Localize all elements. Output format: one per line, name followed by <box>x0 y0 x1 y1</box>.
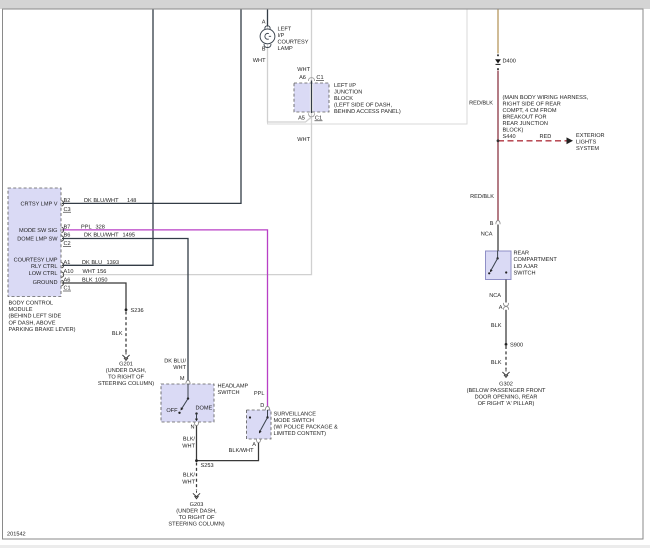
body control module U1 box <box>8 188 61 297</box>
svg-text:WHT: WHT <box>297 137 310 143</box>
headlamp switch pole node <box>187 397 189 399</box>
svg-text:WHT: WHT <box>182 443 195 449</box>
svg-text:JUNCTION: JUNCTION <box>334 90 362 96</box>
svg-text:NCA: NCA <box>489 293 501 299</box>
rear compartment lid ajar switch S3 box <box>486 251 512 280</box>
svg-text:BEHIND ACCESS PANEL): BEHIND ACCESS PANEL) <box>334 108 401 115</box>
svg-text:BLK: BLK <box>112 331 123 337</box>
svg-text:BREAKOUT FOR: BREAKOUT FOR <box>503 115 547 121</box>
svg-text:BLK: BLK <box>491 360 502 366</box>
svg-text:328: 328 <box>96 224 105 230</box>
svg-text:D400: D400 <box>503 59 516 65</box>
svg-text:S236: S236 <box>131 308 144 314</box>
pin A10 arc BCM <box>62 272 64 278</box>
pin N arc headlamp switch <box>194 422 198 426</box>
svg-text:1050: 1050 <box>95 278 107 284</box>
headlamp switch S1 box <box>161 384 214 422</box>
svg-text:A: A <box>499 305 503 311</box>
wire DK BLU lamp pin A to top of page <box>267 9 269 27</box>
svg-text:RED/BLK: RED/BLK <box>470 193 494 200</box>
surveillance switch arm arrowhead <box>259 430 262 433</box>
svg-text:G203: G203 <box>190 502 204 508</box>
svg-text:(UNDER DASH,: (UNDER DASH, <box>176 508 217 515</box>
splice S253 <box>195 459 198 462</box>
svg-text:COURTESY LMP: COURTESY LMP <box>14 258 58 264</box>
rear compartment switch output contact node <box>505 271 507 273</box>
svg-text:SWITCH: SWITCH <box>218 390 240 396</box>
svg-text:A: A <box>262 20 266 26</box>
splice D400 dotted leads <box>497 54 499 56</box>
svg-text:M: M <box>180 376 185 382</box>
svg-text:BLK/: BLK/ <box>183 436 196 443</box>
svg-text:COMPT, 4 CM FROM: COMPT, 4 CM FROM <box>503 108 557 114</box>
lamp E1 body <box>260 29 275 44</box>
svg-text:BLK: BLK <box>491 323 502 329</box>
surveillance mode switch S2 box <box>247 410 272 439</box>
svg-text:STEERING COLUMN): STEERING COLUMN) <box>168 521 224 528</box>
svg-text:BLK/: BLK/ <box>183 472 196 479</box>
svg-text:G302: G302 <box>499 381 513 387</box>
svg-text:WHT: WHT <box>83 269 96 275</box>
svg-text:BLOCK): BLOCK) <box>503 127 524 134</box>
headlamp switch DOME arrow to N <box>196 414 198 419</box>
wire RED/BLK D400 to S440 <box>497 71 499 141</box>
svg-text:DK BLU/WHT: DK BLU/WHT <box>84 197 119 204</box>
svg-text:LID AJAR: LID AJAR <box>514 264 538 270</box>
wire DK BLU/WHT 1495 BCM B6 to headlamp switch M <box>62 239 188 382</box>
surveillance switch unused contact node <box>249 416 251 418</box>
svg-text:1495: 1495 <box>123 233 135 239</box>
svg-text:A6: A6 <box>299 75 306 81</box>
svg-text:WHT: WHT <box>182 479 195 485</box>
svg-text:A: A <box>252 442 256 448</box>
interior lights system boundary box <box>268 9 468 124</box>
pin B arc rear compartment switch <box>496 221 500 225</box>
svg-text:(BEHIND LEFT SIDE: (BEHIND LEFT SIDE <box>9 313 62 320</box>
svg-text:STEERING COLUMN): STEERING COLUMN) <box>98 380 154 387</box>
wire DK BLU 1393 BCM A1 to top of page <box>62 9 153 265</box>
svg-text:(UNDER DASH,: (UNDER DASH, <box>106 367 147 374</box>
svg-text:LIMITED CONTENT): LIMITED CONTENT) <box>274 430 327 437</box>
wire BLK rear compartment switch to pin A <box>505 280 507 303</box>
svg-text:DOME: DOME <box>196 406 213 412</box>
svg-text:WHT: WHT <box>253 58 266 64</box>
svg-text:EXTERIOR: EXTERIOR <box>576 133 605 139</box>
svg-text:DK BLU/: DK BLU/ <box>164 358 186 365</box>
pin M arc headlamp switch <box>186 380 190 384</box>
pin A1 arc BCM <box>62 263 64 269</box>
svg-text:OF DASH, ABOVE: OF DASH, ABOVE <box>9 320 56 326</box>
svg-text:A10: A10 <box>64 269 74 275</box>
svg-text:B2: B2 <box>64 198 71 204</box>
svg-text:I/P: I/P <box>278 32 285 39</box>
svg-text:N: N <box>190 424 194 430</box>
svg-text:156: 156 <box>97 269 106 275</box>
svg-text:CRTSY LMP V: CRTSY LMP V <box>21 201 58 207</box>
svg-text:SYSTEM: SYSTEM <box>576 146 599 152</box>
svg-text:A1: A1 <box>64 260 71 266</box>
lamp E1 filament <box>265 33 271 39</box>
wire BLK/WHT headlamp N to S253 <box>196 425 198 461</box>
svg-text:TO RIGHT OF: TO RIGHT OF <box>179 515 215 521</box>
svg-text:SWITCH: SWITCH <box>514 271 536 277</box>
svg-text:WHT: WHT <box>173 365 186 371</box>
svg-text:S900: S900 <box>510 342 523 348</box>
svg-text:HEADLAMP: HEADLAMP <box>218 383 249 389</box>
svg-text:BLK/WHT: BLK/WHT <box>229 447 254 454</box>
wire BLK/WHT S253 to surveillance switch A <box>197 443 259 461</box>
ground G302 symbol <box>502 369 509 377</box>
headlamp switch arm arrowhead <box>181 407 184 410</box>
pin A6 arc junction block top <box>311 81 313 114</box>
svg-text:A5: A5 <box>298 116 305 122</box>
rear compartment switch arm <box>490 258 497 271</box>
splice S900 <box>505 343 508 346</box>
svg-text:201542: 201542 <box>7 532 26 538</box>
svg-text:GROUND: GROUND <box>33 280 58 286</box>
svg-text:PPL: PPL <box>254 391 265 397</box>
wire RED/BLK S440 to pin B <box>497 141 499 221</box>
wire RED dashed S440 to exterior lights system <box>498 140 567 142</box>
pin B7 arc BCM <box>62 227 64 233</box>
wire BLK pin B to rear compartment switch <box>497 225 499 252</box>
svg-text:B6: B6 <box>64 233 71 239</box>
svg-text:S253: S253 <box>201 463 214 469</box>
ground G201 symbol <box>122 352 129 360</box>
svg-text:DK BLU/WHT: DK BLU/WHT <box>84 232 119 239</box>
svg-text:G201: G201 <box>119 362 133 368</box>
wire ORN from top of page to D400 <box>497 9 499 53</box>
svg-text:(LEFT SIDE OF DASH,: (LEFT SIDE OF DASH, <box>334 102 392 109</box>
svg-text:B7: B7 <box>64 224 71 230</box>
svg-text:DK BLU: DK BLU <box>82 260 102 266</box>
svg-text:B: B <box>262 47 266 53</box>
svg-text:A6: A6 <box>64 278 71 284</box>
svg-text:(W/ POLICE PACKAGE &: (W/ POLICE PACKAGE & <box>274 424 339 431</box>
svg-text:B: B <box>490 221 494 227</box>
wire BLK/WHT dashed S253 to G203 <box>196 463 198 491</box>
svg-text:PARKING BRAKE LEVER): PARKING BRAKE LEVER) <box>9 326 76 333</box>
pin A arc surveillance switch <box>256 439 260 443</box>
pin A arcs rear compartment switch <box>503 303 508 310</box>
svg-text:WHT: WHT <box>297 67 310 73</box>
svg-text:RED/BLK: RED/BLK <box>469 100 493 107</box>
svg-text:OFF: OFF <box>166 408 178 414</box>
svg-text:LEFT: LEFT <box>278 27 292 33</box>
svg-text:OF RIGHT 'A' PILLAR): OF RIGHT 'A' PILLAR) <box>478 400 535 407</box>
svg-text:RED: RED <box>540 134 552 140</box>
svg-text:RLY CTRL: RLY CTRL <box>31 264 58 270</box>
svg-text:PPL: PPL <box>81 224 92 230</box>
svg-text:COURTESY: COURTESY <box>278 40 309 46</box>
svg-text:TO RIGHT OF: TO RIGHT OF <box>108 375 144 381</box>
svg-text:S440: S440 <box>503 134 516 140</box>
headlamp switch internal wire from M <box>187 384 189 399</box>
wire BLK dashed S900 to G302 <box>505 346 507 369</box>
lamp E1 top terminal arc <box>265 26 270 29</box>
svg-text:BLOCK: BLOCK <box>334 96 353 102</box>
pin A5 arc junction block bottom <box>309 113 315 117</box>
arrow to exterior lights system <box>567 137 574 144</box>
svg-text:DOOR OPENING, REAR: DOOR OPENING, REAR <box>475 394 538 400</box>
splice S440 <box>497 139 500 142</box>
surveillance switch internal wire from D <box>267 410 269 418</box>
junction block U2 wire channel <box>310 84 313 112</box>
svg-text:LAMP: LAMP <box>278 46 294 52</box>
headlamp switch arm to OFF <box>181 399 188 410</box>
svg-text:REAR JUNCTION: REAR JUNCTION <box>503 121 548 127</box>
top margin strip <box>0 0 650 9</box>
svg-text:LOW CTRL: LOW CTRL <box>29 271 58 277</box>
wire BLK pin A to S900 <box>505 310 507 345</box>
junction block U2 <box>294 83 329 112</box>
svg-text:(BELOW PASSENGER FRONT: (BELOW PASSENGER FRONT <box>467 387 546 394</box>
ground G203 symbol <box>193 491 200 499</box>
rear compartment switch pole node <box>496 257 498 259</box>
headlamp switch DOME contact node <box>195 412 197 414</box>
rear compartment switch NC contact node <box>488 272 490 274</box>
svg-text:D: D <box>260 403 264 409</box>
wire BLK 1050 BCM A6 to S236 <box>62 283 126 310</box>
wire WHT from junction block down and left to BCM A10 <box>62 9 312 275</box>
svg-text:148: 148 <box>127 198 136 204</box>
pin B6 arc BCM <box>62 236 64 242</box>
rear compartment switch internal wire from B <box>497 251 499 258</box>
svg-text:1393: 1393 <box>107 260 119 266</box>
svg-text:DOME LMP SW: DOME LMP SW <box>17 237 58 243</box>
wire WHT lamp pin B to junction block A5 <box>268 46 312 122</box>
svg-text:RIGHT SIDE OF REAR: RIGHT SIDE OF REAR <box>503 102 561 108</box>
svg-text:MODE SW SIG: MODE SW SIG <box>19 228 58 234</box>
svg-text:(MAIN BODY WIRING HARNESS,: (MAIN BODY WIRING HARNESS, <box>503 94 589 101</box>
surveillance switch arm <box>259 418 267 433</box>
svg-text:SURVEILLANCE: SURVEILLANCE <box>274 412 317 418</box>
svg-text:COMPARTMENT: COMPARTMENT <box>514 257 558 263</box>
svg-text:LEFT I/P: LEFT I/P <box>334 82 356 89</box>
wire DK BLU/WHT 148 BCM B2 to top of page <box>62 9 241 203</box>
svg-text:NCA: NCA <box>481 232 493 238</box>
splice D400 triangle <box>495 59 501 63</box>
wire PPL 328 BCM B7 to surveillance switch D <box>62 230 268 407</box>
wire BLK dashed S236 to G201 <box>125 312 127 353</box>
svg-text:LIGHTS: LIGHTS <box>576 139 596 145</box>
pin A6 arc BCM <box>62 280 64 286</box>
svg-text:BLK: BLK <box>82 278 93 284</box>
svg-text:BODY CONTROL: BODY CONTROL <box>9 301 54 307</box>
svg-text:MODE SWITCH: MODE SWITCH <box>274 418 314 424</box>
svg-text:REAR: REAR <box>514 250 530 256</box>
splice S236 <box>125 308 128 311</box>
surveillance switch top node <box>266 416 268 418</box>
rear compartment switch arm arrowhead <box>490 269 493 272</box>
pin D arc surveillance switch <box>265 406 269 410</box>
lamp E1 bottom terminal arc <box>264 44 271 48</box>
svg-text:MODULE: MODULE <box>9 307 33 313</box>
pin B2 arc BCM <box>62 201 64 207</box>
headlamp switch OFF contact node <box>178 412 180 414</box>
bottom margin strip <box>0 545 650 548</box>
